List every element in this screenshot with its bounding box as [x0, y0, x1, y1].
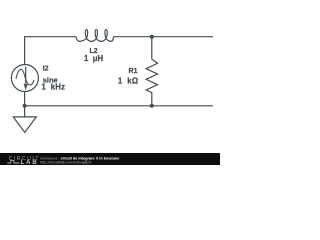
source sine wave: [16, 69, 34, 85]
svg-text:1 kΩ: 1 kΩ: [118, 77, 139, 86]
svg-text:I2: I2: [43, 65, 49, 72]
svg-text:R1: R1: [129, 68, 138, 75]
wire source bottom: [24, 92, 26, 118]
resistor R1: [146, 37, 157, 106]
current source I2 circle: [11, 65, 38, 92]
wire bottom: [25, 105, 213, 107]
ground: [13, 117, 36, 132]
svg-text:LAB: LAB: [21, 160, 39, 165]
wire top from inductor to right edge: [114, 36, 214, 38]
node junction top of R1: [150, 35, 154, 39]
watermark bar: [0, 153, 220, 165]
svg-text:1 μH: 1 μH: [84, 54, 103, 63]
node junction bottom of R1: [150, 104, 154, 108]
watermark logo waveform: [7, 160, 19, 163]
node junction bottom-left: [23, 104, 27, 108]
source arrow: [25, 67, 27, 83]
svg-text:http://circuitlab.com/c/kuq6p5: http://circuitlab.com/c/kuq6p5/: [40, 159, 92, 164]
svg-text:1 kHz: 1 kHz: [42, 83, 66, 92]
wire top-left from source to inductor: [25, 37, 77, 65]
inductor L2: [76, 29, 113, 41]
